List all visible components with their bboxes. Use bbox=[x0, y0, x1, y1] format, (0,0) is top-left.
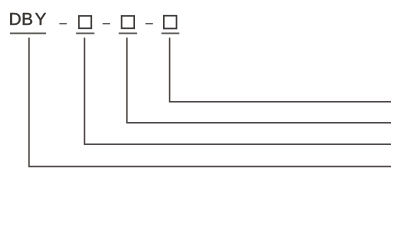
leader line from box 2 bbox=[127, 38, 391, 123]
dash 1 bbox=[59, 23, 67, 24]
underline under box 3 bbox=[161, 33, 179, 35]
box placeholder 1 bbox=[79, 16, 91, 28]
letter Y bbox=[35, 13, 46, 25]
leader line from DBY bbox=[29, 38, 391, 167]
leader line from box 1 bbox=[85, 38, 392, 145]
underline under box 1 bbox=[76, 33, 94, 35]
box placeholder 3 bbox=[164, 16, 177, 29]
letter B bbox=[23, 13, 32, 25]
box placeholder 2 bbox=[122, 16, 135, 28]
underline under DBY bbox=[10, 33, 46, 35]
dash 2 bbox=[103, 23, 111, 24]
underline under box 2 bbox=[119, 33, 137, 35]
dash 3 bbox=[145, 23, 153, 24]
leader line from box 3 bbox=[170, 38, 391, 102]
model code text DBY bbox=[10, 13, 46, 25]
letter D bbox=[10, 13, 20, 25]
